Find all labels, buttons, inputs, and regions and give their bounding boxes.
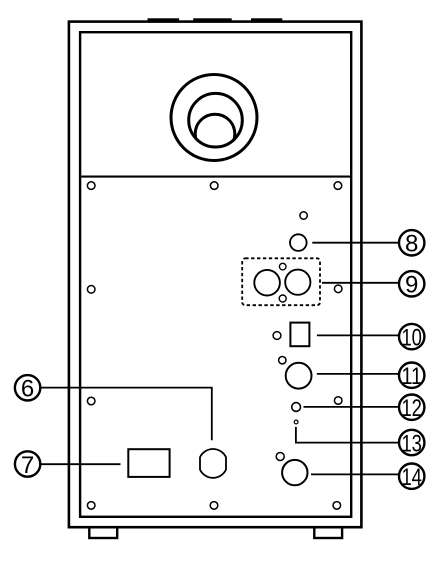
panel divider line [81,176,350,178]
connector 9 left jack [254,270,280,296]
svg-text:7: 7 [21,452,34,479]
leader line 13 elbow [296,427,399,443]
connector 14 jack [282,460,307,485]
screw top-left [87,182,95,190]
connector 11 jack [286,363,312,389]
connector 6 double-D socket [200,449,226,478]
leader line 10 [317,334,399,336]
screw bottom-middle [210,502,218,510]
callout 9 [399,271,424,299]
svg-text:13: 13 [401,430,422,457]
callout 11 [399,363,424,391]
leader line 6 elbow [41,388,212,441]
rear panel [80,32,351,517]
foot right [314,527,342,538]
callout 12 [399,395,424,423]
callout 7 [15,451,40,479]
svg-text:14: 14 [401,464,422,491]
bass port inner tube [195,114,235,154]
foot left [89,527,117,538]
callout 14 [399,464,424,492]
connector 8 jack [290,234,307,251]
top tab 3 [251,18,282,22]
indicator 13 pinhole [294,420,298,424]
leader line 14 [311,473,399,475]
bass port rim [189,93,243,147]
connector 10 square port [290,323,309,347]
callout 13 [399,430,424,458]
leader line 11 [317,373,399,375]
small hole left of 10 [273,332,281,340]
screw mid-lower-left [87,397,95,405]
svg-text:9: 9 [405,272,418,299]
leader line 7 [41,463,121,465]
leader line 9 [322,282,399,284]
bass port outer ring [171,75,257,161]
small hole upper in box 9 [279,263,286,270]
svg-text:8: 8 [405,231,418,258]
cabinet outline [69,22,362,528]
leader line 8 [312,242,399,244]
screw top-middle [210,182,218,190]
svg-text:11: 11 [401,363,422,390]
screw top-right [334,182,342,190]
screw bottom-right [333,502,341,510]
small hole lower in box 9 [279,295,286,302]
svg-text:12: 12 [401,395,422,422]
callout 6 [15,375,40,403]
top tab 1 [148,18,180,22]
svg-text:6: 6 [21,376,34,403]
screw mid-lower-right [334,397,342,405]
svg-text:10: 10 [401,324,422,351]
screw mid-upper-left [87,286,95,294]
small hole above connector 11 [279,357,286,364]
callout 8 [399,230,424,258]
leader line 12 [304,406,399,408]
connector 12 small hole [292,403,301,412]
screw bottom-left [87,502,95,510]
callout 10 [399,324,424,352]
connector 7 AC inlet [128,449,169,477]
screw mid-upper-right [334,285,342,293]
small hole above connector 14 [276,453,284,461]
top tab 2 [193,18,232,22]
dashed group box 9 [242,258,320,305]
connector 9 right jack [285,270,310,295]
indicator dot above connector 8 [300,212,307,219]
